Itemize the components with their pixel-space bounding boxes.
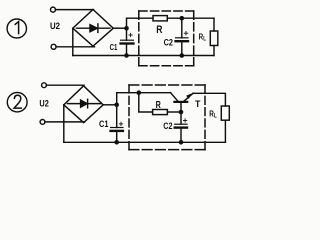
svg-text:C1: C1 (99, 119, 109, 129)
node: R top junction (circuit 2) (137, 90, 142, 95)
bridge rectifier B1 (diamond, circuit 1) (73, 10, 114, 47)
wire: bridge B1 - output drop (left vertex down) (72, 28, 74, 55)
svg-text:T: T (195, 99, 201, 110)
transistor T (series pass, circuit 2) (171, 93, 193, 112)
polarity + of C2 (circuit 1) (184, 32, 187, 35)
svg-text:U2: U2 (50, 21, 60, 32)
node: R/C2/base junction (circuit 2) (179, 110, 184, 115)
polarity + of C1 (circuit 1) (129, 33, 132, 36)
node: C1 top junction (circuit 2) (114, 103, 119, 108)
wire: circuit 2 lower input to bridge bottom vertex (45, 121, 85, 123)
capacitor C1 (circuit 2, electrolytic) (111, 105, 123, 143)
svg-text:R: R (156, 100, 162, 111)
bridge rectifier B2 (diamond, circuit 2) (64, 86, 103, 123)
wire: R right side to load corner (circuit 1) (167, 17, 214, 19)
wire: bottom rail (circuit 1) (73, 55, 214, 57)
svg-text:L: L (214, 112, 217, 119)
wire: bottom rail (circuit 2) (64, 141, 226, 143)
diode inside bridge B2 (68, 99, 101, 108)
svg-text:U2: U2 (39, 98, 48, 109)
label RL (circuit 1) (199, 33, 206, 43)
wire: bridge B2 + output (right vertex) to node (103, 104, 117, 106)
node: R/C2 junction (circuit 1) (180, 16, 185, 21)
wire: bridge B2 - output drop (left vertex down) (63, 105, 65, 143)
terminal: circuit 1 upper input (51, 7, 56, 12)
terminal: circuit 1 lower input (51, 44, 56, 49)
wire: R right lead to base node (circuit 2) (167, 111, 181, 113)
node: C1 bottom junction (circuit 2) (114, 140, 119, 145)
wire: RL bottom lead (circuit 1) (213, 46, 215, 56)
wire: riser and top rail to transistor collector (circuit 2) (117, 93, 171, 105)
wire: up from + node then right to R (circuit 1) (127, 18, 154, 28)
node: C2 bottom junction (circuit 2) (179, 140, 184, 145)
node: C1 bottom junction (circuit 1) (124, 53, 129, 58)
wire: circuit 1 lower input to bridge bottom vertex (56, 46, 94, 48)
wire: emitter rail to RL (circuit 2) (193, 93, 225, 106)
resistor RL (circuit 1) (210, 31, 218, 46)
svg-text:C1: C1 (110, 42, 118, 52)
resistor RL (circuit 2) (221, 106, 229, 120)
capacitor C1 (circuit 1, electrolytic) (121, 28, 134, 55)
label RL (circuit 2) (209, 110, 217, 120)
terminal: circuit 2 lower input (40, 120, 45, 125)
svg-text:L: L (203, 36, 206, 43)
svg-text:C2: C2 (164, 37, 173, 47)
resistor R (circuit 2) (153, 110, 168, 115)
svg-text:R: R (156, 24, 162, 36)
capacitor C2 (circuit 1, electrolytic) (176, 18, 188, 55)
wire: RL bottom lead (circuit 2) (224, 120, 226, 142)
node 2: circled numeral for circuit 2 (7, 93, 27, 112)
diode inside bridge B1 (77, 24, 111, 33)
capacitor C2 (circuit 2, electrolytic) (175, 112, 187, 142)
node 1: circled numeral for circuit 1 (7, 19, 26, 38)
node: C1 top junction (circuit 1) (124, 26, 129, 31)
svg-text:C2: C2 (163, 121, 172, 131)
dashed filter block boundary (circuit 2) (129, 85, 205, 150)
polarity + of C1 (circuit 2) (119, 122, 122, 125)
terminal: circuit 2 upper input (42, 83, 47, 88)
wire: circuit 2 upper input to bridge top vertex (46, 84, 84, 86)
polarity + of C2 (circuit 2) (183, 119, 186, 122)
resistor R (circuit 1) (153, 16, 167, 21)
node: C2 bottom junction (circuit 1) (180, 53, 185, 58)
dashed filter block boundary (circuit 1) (139, 11, 194, 66)
wire: down from rail to R (circuit 2) (139, 93, 153, 112)
wire: RL top lead (circuit 1) (213, 18, 215, 31)
wire: circuit 1 upper input to bridge top vertex (56, 9, 94, 11)
wire: bridge B1 + output (right vertex) to node (113, 27, 126, 29)
